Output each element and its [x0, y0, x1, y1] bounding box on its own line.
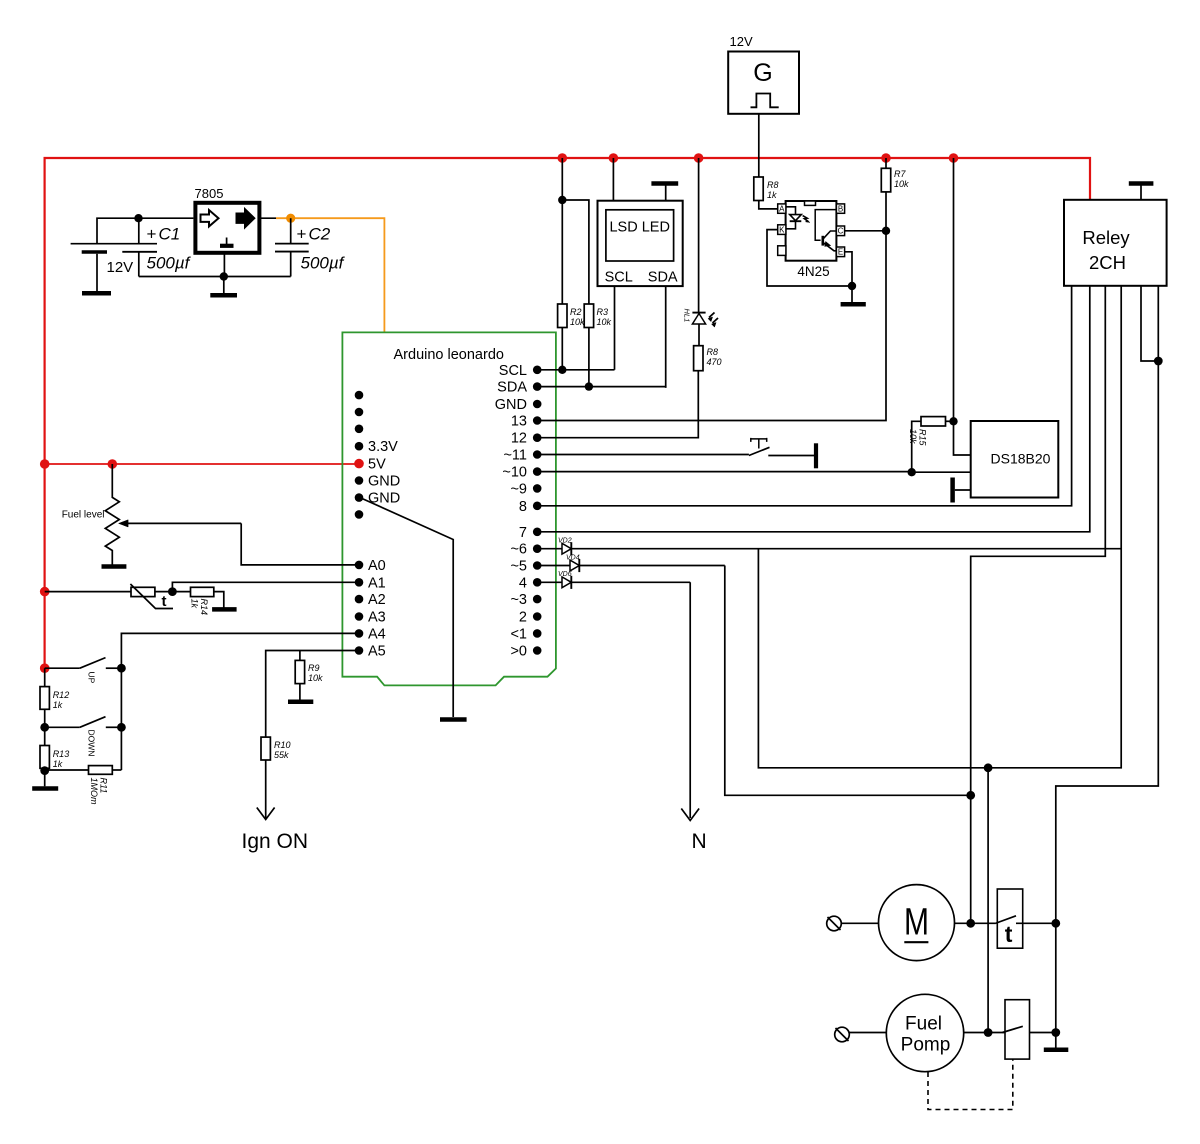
svg-text:A1: A1 — [368, 575, 386, 591]
pin GND 2 — [355, 493, 364, 502]
node R2/R3 top junction — [558, 196, 566, 204]
node R15 right junction — [949, 417, 957, 425]
svg-text:C2: C2 — [309, 225, 331, 244]
pin ~9 — [533, 484, 542, 493]
wire 7805 output to orange node — [259, 217, 276, 219]
svg-text:Fuel: Fuel — [905, 1013, 942, 1034]
resistor R7 10k — [885, 158, 887, 168]
LED HL1 — [692, 312, 705, 314]
svg-text:10k: 10k — [908, 429, 918, 444]
wire R11 right lead — [112, 769, 121, 771]
regulator internal ground pin — [226, 238, 228, 245]
wire R12 to DOWN node — [44, 709, 46, 727]
diode VD2 on pin ~6 — [537, 548, 1121, 550]
Arduino leonardo board outline U2 — [342, 332, 556, 685]
node rail junction R7 branch — [881, 153, 891, 163]
pin 12 — [533, 433, 542, 442]
wire thermistor to junction — [155, 591, 191, 593]
svg-text:N: N — [692, 830, 707, 853]
potentiometer Fuel level — [105, 464, 119, 565]
wire R15 right lead — [946, 420, 954, 422]
svg-text:Pomp: Pomp — [901, 1035, 951, 1056]
wire R15 left lead down to data net — [912, 421, 921, 472]
button UP — [45, 667, 80, 669]
wire R9 to ground — [299, 684, 301, 700]
pin E — [836, 247, 844, 257]
svg-text:SDA: SDA — [648, 270, 678, 286]
svg-text:12V: 12V — [730, 34, 753, 49]
regulator input arrow (outline) — [201, 210, 219, 226]
pin ~5 — [533, 561, 542, 570]
svg-text:t: t — [1005, 921, 1013, 947]
wire G output down through rail to R8 — [758, 114, 760, 177]
regulator U1 7805 box — [195, 203, 259, 253]
motor M — [879, 885, 955, 961]
ground pump switch — [1044, 1048, 1069, 1053]
generator G 12V box — [728, 52, 799, 114]
pin 5V (red) — [354, 459, 364, 469]
svg-text:C1: C1 — [159, 225, 181, 244]
svg-text:+: + — [297, 225, 307, 244]
node fuel-level pot top — [108, 459, 118, 469]
resistor R12 1k — [44, 668, 46, 686]
wire 4N25 K to ground bus — [767, 230, 852, 286]
wire C1 leads — [138, 218, 140, 276]
wire switch to ground bus — [1016, 922, 1056, 924]
wire C2 leads — [290, 218, 292, 276]
node R2/SCL junction — [558, 366, 566, 374]
button DOWN — [45, 726, 80, 728]
svg-text:4N25: 4N25 — [797, 264, 829, 279]
svg-text:Arduino leonardo: Arduino leonardo — [394, 347, 504, 363]
ground under battery — [82, 291, 111, 296]
ground DS18B20 (vertical bar) — [950, 478, 955, 503]
svg-text:M: M — [904, 902, 929, 944]
svg-text:E: E — [838, 248, 843, 257]
pin 2 — [533, 612, 542, 621]
node t switch / ground bus junction — [1051, 919, 1060, 928]
wire relay pin5 joins pin6 — [1141, 286, 1158, 361]
svg-text:DS18B20: DS18B20 — [991, 451, 1051, 467]
svg-text:A3: A3 — [368, 610, 386, 626]
wire HL1 cathode to R8 — [698, 324, 700, 346]
terminal motor supply — [827, 916, 842, 931]
node rail junction R2 branch — [558, 153, 568, 163]
svg-text:G: G — [753, 59, 772, 87]
pin GND — [355, 476, 364, 485]
svg-text:VD4: VD4 — [566, 554, 580, 561]
wire R7 down to pin 13 — [537, 192, 886, 421]
svg-text:12V: 12V — [107, 259, 134, 276]
svg-text:A4: A4 — [368, 626, 386, 642]
diode VD6 on pin 4 — [537, 581, 690, 583]
svg-text:7805: 7805 — [195, 186, 224, 201]
pin >0 — [533, 646, 542, 655]
svg-text:HL1: HL1 — [683, 309, 692, 323]
resistor R10 55k — [261, 737, 270, 760]
terminal pump supply — [835, 1027, 850, 1042]
svg-text:LSD LED: LSD LED — [609, 220, 669, 236]
wire motor to node — [955, 922, 996, 924]
contact bar for pushbutton — [814, 443, 818, 468]
svg-text:~11: ~11 — [503, 448, 527, 464]
wire terminal to motor — [841, 922, 878, 924]
svg-text:~3: ~3 — [510, 592, 527, 608]
optocoupler internal transistor — [815, 210, 836, 241]
arduino left pin dots unlabeled — [355, 391, 364, 400]
node pump feed junction — [984, 763, 993, 772]
svg-text:12: 12 — [511, 431, 527, 447]
svg-text:VD6: VD6 — [558, 571, 572, 578]
svg-text:R8: R8 — [707, 347, 719, 357]
node orange output junction — [286, 214, 295, 223]
node UP right junction — [117, 664, 126, 673]
wire SCL net — [537, 369, 614, 371]
resistor R14 1k — [191, 587, 214, 596]
resistor R2 10k — [558, 304, 567, 328]
svg-text:t: t — [162, 593, 167, 610]
svg-text:~6: ~6 — [510, 542, 527, 558]
resistor R9 10k pull-down on A5 — [299, 651, 301, 661]
svg-text:7: 7 — [519, 525, 527, 541]
ground under potentiometer — [102, 564, 127, 569]
ground R14 — [212, 607, 237, 612]
node R15/data junction — [908, 468, 916, 476]
wire DS18B20 VCC from rail — [953, 158, 955, 421]
svg-text:R8: R8 — [767, 180, 779, 190]
pin SDA — [533, 382, 542, 391]
ground above relay — [1129, 181, 1154, 186]
pin 3.3V — [355, 442, 364, 451]
pump relay switch box — [1005, 1000, 1030, 1059]
svg-text:A: A — [779, 205, 785, 214]
resistor R3 10k — [584, 304, 593, 328]
node 4N25 ground junction — [848, 282, 856, 290]
pin 8 — [533, 502, 542, 511]
svg-text:10k: 10k — [308, 673, 323, 683]
node rail junction DS18B20 branch — [949, 153, 959, 163]
wire terminal to pump — [849, 1032, 886, 1034]
pin SCL — [533, 366, 542, 375]
wire HL1 anode from rail — [698, 158, 700, 312]
wire battery positive to node — [97, 218, 193, 244]
node R3/SDA junction — [585, 382, 593, 390]
resistor R8 470 — [694, 346, 703, 371]
svg-text:1MOm: 1MOm — [89, 778, 99, 806]
svg-text:470: 470 — [707, 357, 722, 367]
ground under regulator — [210, 293, 237, 298]
node C1 top junction — [134, 214, 142, 222]
wire battery negative down — [96, 254, 98, 291]
module LSD LED display — [598, 201, 683, 286]
wire to ground — [851, 286, 853, 302]
svg-text:R15: R15 — [918, 429, 928, 447]
pushbutton on pin ~11 — [537, 454, 749, 456]
svg-text:1k: 1k — [53, 759, 63, 769]
wire wiper to pin A0 — [241, 523, 359, 565]
resistor R11 1MOm — [45, 769, 89, 771]
wire arduino GND diagonal to board ground — [362, 499, 453, 718]
svg-text:SDA: SDA — [497, 380, 527, 396]
svg-text:Reley: Reley — [1082, 227, 1130, 248]
svg-text:Ign ON: Ign ON — [242, 830, 309, 853]
svg-text:R3: R3 — [597, 307, 609, 317]
svg-text:R7: R7 — [894, 169, 906, 179]
pin GND right — [533, 400, 542, 409]
svg-text:VD2: VD2 — [558, 538, 572, 545]
svg-text:2: 2 — [519, 610, 527, 626]
pin ~10 — [533, 467, 542, 476]
wire LSD GND pin up — [665, 186, 667, 201]
ground R9 — [288, 699, 313, 704]
node R13 bottom junction — [44, 768, 46, 770]
capacitor C2 plates — [275, 243, 309, 245]
wire 4N25 C to R7 line — [845, 230, 886, 232]
svg-text:K: K — [779, 226, 785, 235]
node rail junction HL1 branch — [694, 153, 704, 163]
thermistor t — [131, 587, 155, 596]
svg-text:C: C — [838, 227, 844, 236]
pin <1 — [533, 629, 542, 638]
wire VD2 net to relay pin4 (vertical drop and run) — [758, 286, 1121, 768]
pin 13 — [533, 416, 542, 425]
ground R13 — [32, 786, 58, 791]
svg-text:R9: R9 — [308, 663, 320, 673]
wire R14 to ground — [214, 592, 224, 608]
svg-text:1k: 1k — [190, 599, 200, 609]
wire orange 5V feed to Arduino — [276, 218, 384, 332]
svg-text:4: 4 — [519, 575, 527, 591]
svg-text:>0: >0 — [510, 644, 527, 660]
wire to ground — [44, 771, 46, 787]
wire A4 net down through buttons — [121, 633, 359, 770]
node pump output junction — [984, 1028, 993, 1037]
svg-text:500µf: 500µf — [147, 254, 192, 273]
svg-text:5V: 5V — [368, 457, 386, 473]
pin A5 — [355, 646, 364, 655]
svg-text:GND: GND — [368, 474, 400, 490]
svg-text:+: + — [147, 225, 157, 244]
wire +12V red rail: left vertical, top horizontal, drop to relay — [45, 158, 1090, 668]
svg-text:R12: R12 — [53, 690, 70, 700]
wire switch to ground bus — [1030, 1032, 1056, 1034]
svg-text:10k: 10k — [894, 179, 909, 189]
motor Fuel Pomp — [886, 994, 963, 1071]
node ground rail junction — [220, 272, 228, 280]
pin 7 — [533, 528, 542, 537]
node rail junction LSD VCC — [609, 153, 619, 163]
svg-text:GND: GND — [495, 397, 527, 413]
wire pin 8 to relay pin1 — [537, 286, 1071, 506]
svg-text:10k: 10k — [570, 317, 585, 327]
wire pump to node — [964, 1032, 1005, 1034]
svg-text:1k: 1k — [53, 700, 63, 710]
pin A — [778, 204, 786, 213]
ground 4N25 — [841, 302, 866, 307]
pin ~6 — [533, 544, 542, 553]
pin B — [836, 204, 844, 213]
svg-text:A2: A2 — [368, 592, 386, 608]
wire SDA net — [537, 387, 666, 388]
pin ~3 — [533, 595, 542, 604]
relay module Reley 2CH box — [1064, 200, 1167, 286]
svg-text:A5: A5 — [368, 644, 386, 660]
node pump switch / ground bus junction — [1051, 1028, 1060, 1037]
svg-text:UP: UP — [87, 672, 97, 684]
ground above LSD — [651, 181, 678, 186]
node C / R7 junction — [882, 227, 890, 235]
wire VD4 net to motor vertical — [725, 566, 971, 796]
svg-text:3.3V: 3.3V — [368, 439, 398, 455]
resistor R15 10k — [921, 417, 946, 426]
pin A4 — [355, 629, 364, 638]
HL1 light arrows — [709, 313, 718, 324]
wire 4N25 E to ground bus — [845, 252, 852, 286]
resistor R8 1k — [754, 177, 763, 201]
node motor output junction — [966, 919, 975, 928]
ground under arduino — [440, 717, 467, 722]
svg-text:DOWN: DOWN — [87, 730, 97, 757]
potentiometer wiper arrow — [126, 522, 241, 524]
wire 5V red from rail to Arduino 5V pin — [45, 463, 359, 465]
pin A3 — [355, 612, 364, 621]
svg-text:~9: ~9 — [510, 481, 527, 497]
wire relay pin6 to switches ground bus — [1056, 286, 1159, 1048]
wire A5 net to R10 — [266, 651, 359, 738]
pin 4 — [533, 578, 542, 587]
wire R8 to pin 12 — [537, 371, 698, 438]
node 5V junction on left rail — [40, 459, 50, 469]
svg-text:13: 13 — [511, 414, 527, 430]
dashed mechanical link pump to switch — [928, 1059, 1013, 1109]
arduino left pin dot unlabeled 4 — [355, 510, 364, 519]
svg-text:SCL: SCL — [605, 270, 633, 286]
wire down to ground — [223, 277, 225, 294]
node DOWN left junction — [40, 723, 49, 732]
wire R3 bottom to SDA — [588, 328, 590, 387]
wire DS18B20 GND pin — [955, 489, 971, 491]
wire R2 bottom to SCL — [561, 328, 563, 370]
DS18B20 sensor box — [971, 421, 1059, 498]
node motor feed junction — [966, 791, 975, 800]
wire pump feed down — [987, 768, 989, 1033]
pin NC — [778, 246, 786, 256]
wire 7805 ground lead — [223, 253, 225, 277]
resistor R13 1k — [44, 727, 46, 745]
pin A0 — [355, 561, 364, 570]
svg-text:500µf: 500µf — [301, 254, 346, 273]
pin A1 — [355, 578, 364, 587]
wire LSD VCC from rail — [612, 158, 614, 201]
optocoupler light arrow — [803, 216, 809, 222]
svg-text:Fuel level: Fuel level — [62, 510, 105, 521]
node pin5/pin6 junction — [1154, 357, 1163, 366]
svg-text:R2: R2 — [570, 307, 582, 317]
wire relay ground pin up — [1140, 186, 1142, 200]
svg-text:55k: 55k — [274, 750, 289, 760]
node thermistor feed on left rail — [40, 587, 50, 597]
svg-text:8: 8 — [519, 499, 527, 515]
wire VCC into DS18B20 — [954, 421, 971, 455]
svg-text:B: B — [838, 205, 843, 214]
diode VD4 on pin ~5 — [537, 565, 725, 567]
wire junction up to pin A1 — [172, 582, 359, 591]
svg-text:R10: R10 — [274, 740, 291, 750]
pin C — [836, 226, 844, 236]
svg-text:A0: A0 — [368, 558, 386, 574]
optocoupler U3 4N25 body — [786, 201, 837, 261]
generator pulse symbol — [751, 94, 779, 108]
pin ~11 — [533, 450, 542, 459]
capacitor C1 bottom plate — [122, 251, 157, 253]
svg-text:~5: ~5 — [510, 559, 527, 575]
optocoupler internal LED — [786, 207, 796, 215]
wire LSD SDA pin down to SDA net — [665, 286, 667, 388]
svg-text:2CH: 2CH — [1089, 252, 1126, 273]
wire relay pin3 to motor node — [971, 286, 1106, 924]
thermal switch t box — [997, 889, 1022, 948]
svg-text:<1: <1 — [510, 626, 527, 642]
svg-text:SCL: SCL — [499, 363, 527, 379]
svg-text:~10: ~10 — [502, 465, 527, 481]
wire R8 to 4N25 pin A — [759, 201, 778, 209]
pin A2 — [355, 595, 364, 604]
svg-text:10k: 10k — [597, 317, 612, 327]
svg-text:1k: 1k — [767, 190, 777, 200]
svg-text:R14: R14 — [199, 599, 209, 616]
wire R2 pull-up from rail — [561, 158, 563, 304]
svg-text:R13: R13 — [53, 749, 70, 759]
svg-text:R11: R11 — [99, 778, 109, 794]
wire data net pin ~10 to DS18B20 — [537, 471, 971, 474]
wire ground rail under regulator — [139, 276, 291, 278]
wire branch to R3 — [562, 200, 589, 304]
node DOWN right junction — [117, 723, 126, 732]
wire pin 7 to relay pin2 — [537, 286, 1090, 532]
node thermistor/R14 junction — [168, 587, 177, 596]
pin K — [778, 225, 786, 235]
wire thermistor feed — [45, 591, 131, 593]
wire R10 down to Ign ON arrow — [265, 760, 267, 818]
wire LSD SCL pin down to SCL net — [614, 286, 616, 370]
wire pin 4 net down to N arrow — [689, 582, 691, 818]
battery 12V plates — [71, 243, 157, 245]
node UP button feed on left rail — [40, 663, 50, 673]
regulator output arrow (solid) — [236, 208, 255, 228]
